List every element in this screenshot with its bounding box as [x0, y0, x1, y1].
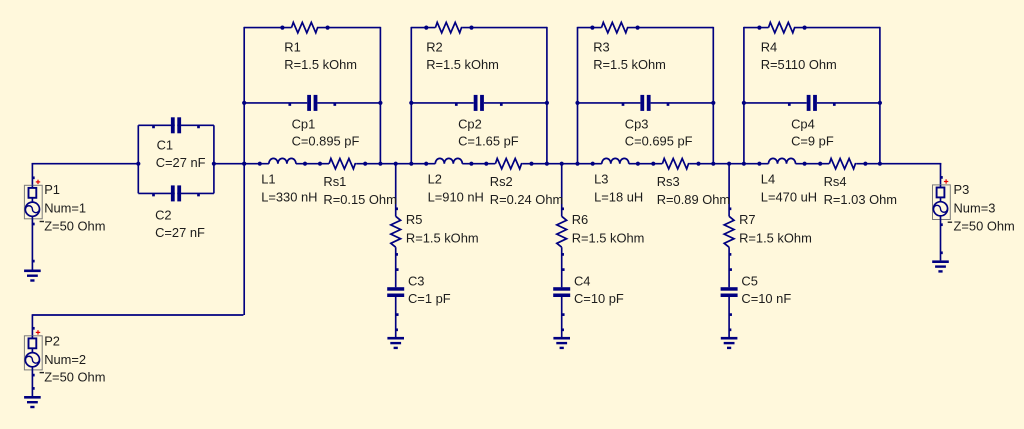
svg-text:Rs3: Rs3 — [657, 174, 680, 189]
svg-text:R1: R1 — [284, 39, 300, 54]
svg-text:R=1.5 kOhm: R=1.5 kOhm — [572, 230, 645, 245]
svg-text:C=10 nF: C=10 nF — [741, 291, 791, 306]
svg-text:Num=2: Num=2 — [44, 352, 86, 367]
svg-text:P1: P1 — [44, 182, 60, 197]
svg-text:P3: P3 — [954, 182, 970, 197]
svg-text:Cp4: Cp4 — [791, 116, 815, 131]
svg-text:R7: R7 — [739, 212, 755, 227]
svg-text:L1: L1 — [261, 172, 275, 187]
svg-text:C3: C3 — [408, 274, 424, 289]
svg-text:R=0.15 Ohm: R=0.15 Ohm — [323, 192, 396, 207]
svg-text:Rs2: Rs2 — [490, 174, 513, 189]
svg-text:C=0.695 pF: C=0.695 pF — [625, 134, 693, 149]
svg-text:R6: R6 — [572, 212, 588, 227]
svg-text:P2: P2 — [44, 334, 60, 349]
svg-text:Num=1: Num=1 — [44, 200, 86, 215]
svg-text:R=1.5 kOhm: R=1.5 kOhm — [593, 57, 666, 72]
svg-text:L=18 uH: L=18 uH — [594, 190, 643, 205]
svg-text:L4: L4 — [761, 172, 775, 187]
svg-text:R5: R5 — [406, 212, 422, 227]
svg-text:C4: C4 — [574, 274, 590, 289]
svg-text:Cp3: Cp3 — [625, 116, 649, 131]
svg-text:C=9 pF: C=9 pF — [791, 134, 834, 149]
svg-text:C2: C2 — [155, 208, 171, 223]
svg-text:R=0.89 Ohm: R=0.89 Ohm — [657, 192, 730, 207]
svg-text:L=910 nH: L=910 nH — [428, 190, 484, 205]
svg-text:Z=50 Ohm: Z=50 Ohm — [44, 219, 105, 234]
svg-text:Num=3: Num=3 — [954, 201, 996, 216]
svg-text:L=470 uH: L=470 uH — [761, 190, 817, 205]
svg-text:Cp2: Cp2 — [458, 116, 482, 131]
svg-text:L3: L3 — [594, 172, 608, 187]
svg-text:Rs1: Rs1 — [323, 174, 346, 189]
svg-text:Z=50 Ohm: Z=50 Ohm — [44, 369, 105, 384]
svg-text:C=0.895 pF: C=0.895 pF — [292, 134, 360, 149]
svg-text:R3: R3 — [593, 39, 609, 54]
svg-text:R=5110 Ohm: R=5110 Ohm — [761, 57, 837, 72]
svg-text:Cp1: Cp1 — [292, 116, 316, 131]
svg-text:L2: L2 — [428, 172, 442, 187]
svg-text:Z=50 Ohm: Z=50 Ohm — [954, 219, 1015, 234]
svg-text:C=1.65 pF: C=1.65 pF — [458, 134, 519, 149]
svg-text:C1: C1 — [157, 137, 173, 152]
svg-text:R=1.5 kOhm: R=1.5 kOhm — [406, 230, 479, 245]
svg-text:C5: C5 — [741, 274, 757, 289]
svg-text:R=1.5 kOhm: R=1.5 kOhm — [739, 230, 812, 245]
svg-text:C=1 pF: C=1 pF — [408, 291, 451, 306]
svg-text:L=330 nH: L=330 nH — [261, 190, 317, 205]
svg-text:R=1.5 kOhm: R=1.5 kOhm — [284, 57, 357, 72]
svg-text:C=27 nF: C=27 nF — [156, 155, 206, 170]
svg-text:R=1.03 Ohm: R=1.03 Ohm — [824, 192, 897, 207]
svg-text:C=27 nF: C=27 nF — [155, 225, 205, 240]
svg-text:R2: R2 — [426, 39, 442, 54]
svg-text:C=10 pF: C=10 pF — [574, 291, 624, 306]
svg-text:R4: R4 — [761, 39, 777, 54]
svg-text:R=0.24 Ohm: R=0.24 Ohm — [490, 192, 563, 207]
svg-text:Rs4: Rs4 — [824, 174, 847, 189]
svg-text:R=1.5 kOhm: R=1.5 kOhm — [426, 57, 499, 72]
